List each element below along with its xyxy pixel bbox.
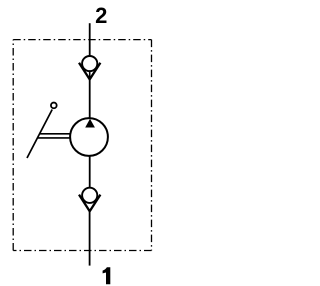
wire: port 2 down to check valve V1 <box>89 23 91 58</box>
enclosure boundary (valve assembly, dash-dot frame) <box>13 40 151 251</box>
svg-text:2: 2 <box>95 3 107 28</box>
lever arm <box>27 110 52 159</box>
check valve V2 (bottom, ball in seat) <box>79 188 100 212</box>
lever knob <box>51 103 57 109</box>
port label 2 <box>95 3 107 28</box>
lever actuator linkage (two parallel bars to valve body) <box>38 134 72 138</box>
wire: check valve V1 to metering valve <box>89 79 91 120</box>
wire: metering valve to check valve V2 <box>89 154 91 196</box>
metering valve U1 (circle with flow triangle) <box>70 118 108 156</box>
port label 1 <box>103 267 111 284</box>
check valve V1 (top, ball in seat) <box>79 56 100 79</box>
wire: check valve V2 down to port 1 <box>89 210 91 266</box>
